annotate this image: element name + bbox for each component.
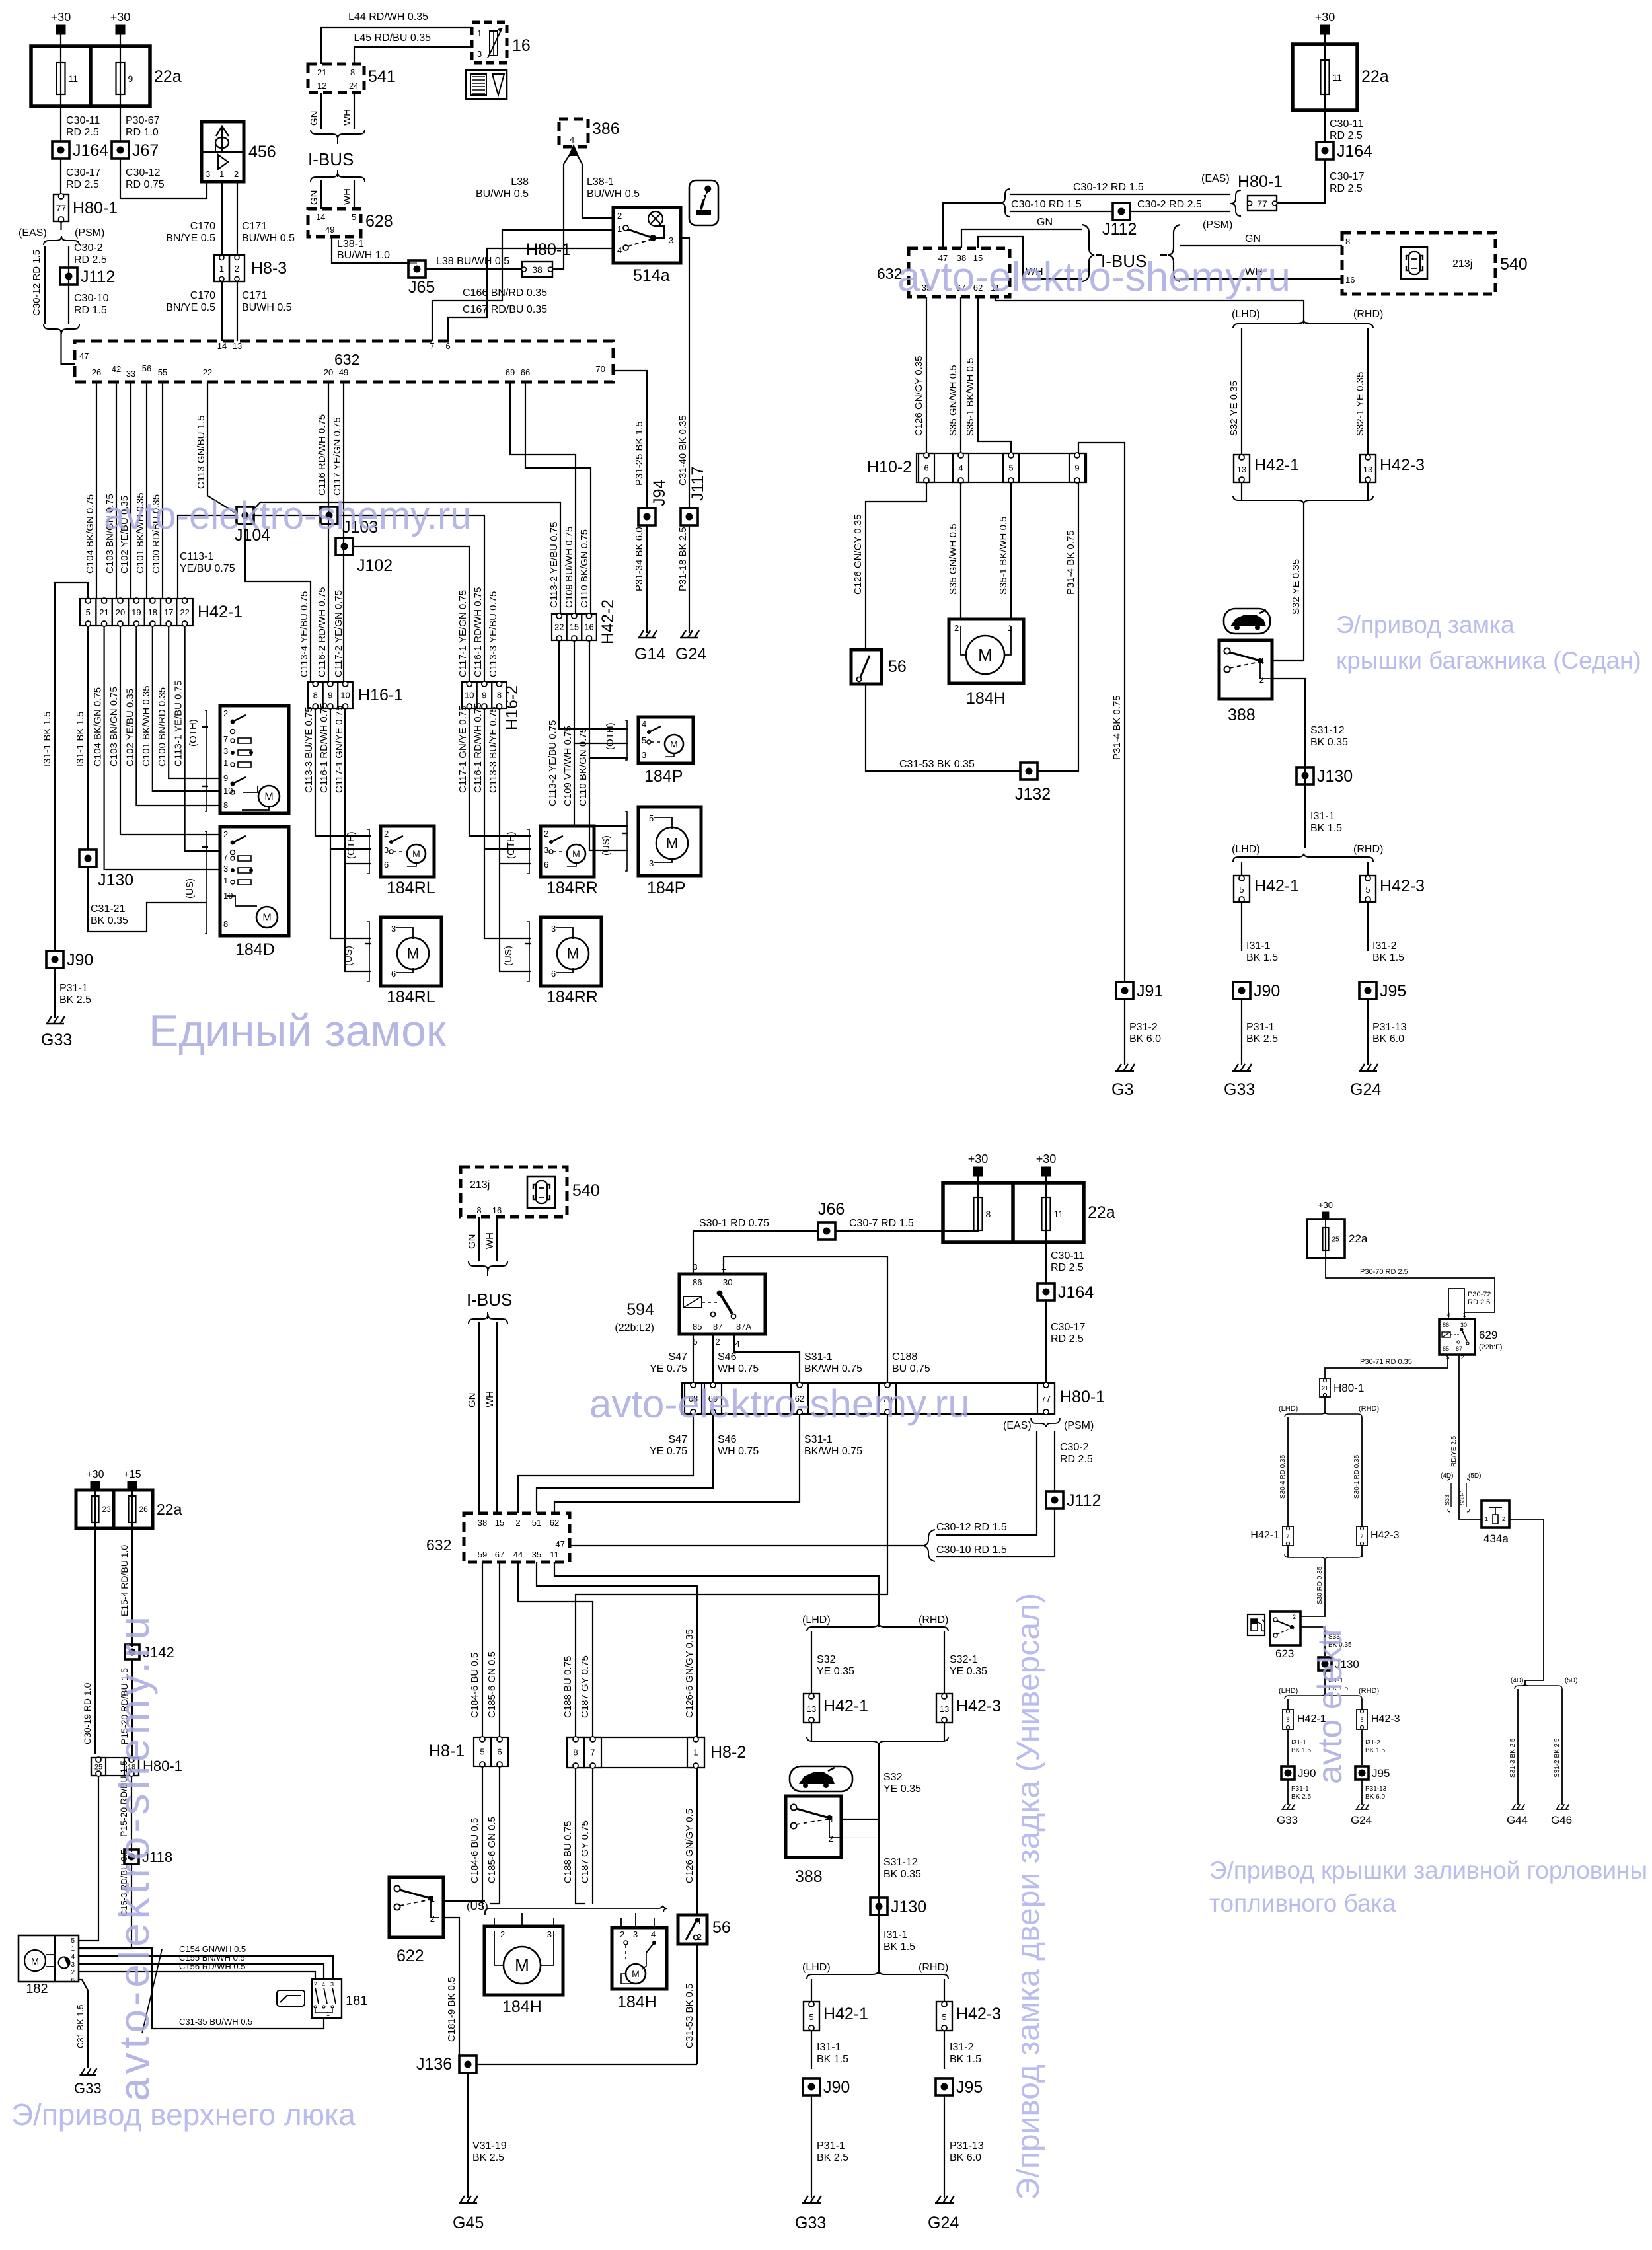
svg-text:C31-40 BK 0.35: C31-40 BK 0.35 [677, 415, 689, 486]
svg-text:(EAS): (EAS) [19, 227, 47, 239]
splice J95 [1359, 982, 1406, 1000]
brace LHD/RHD wagon lower [807, 1971, 948, 1979]
wire S46 WH 0.75 [712, 1334, 714, 1383]
ground G33 fuel [1281, 1804, 1295, 1809]
svg-text:4: 4 [570, 135, 574, 145]
svg-text:C116-1 RD/WH 0.75: C116-1 RD/WH 0.75 [472, 587, 484, 677]
svg-text:(OTH): (OTH) [605, 722, 616, 750]
svg-text:77: 77 [56, 203, 67, 213]
wire P31-1 BK 2.5 [54, 968, 56, 1018]
svg-text:5: 5 [642, 735, 646, 745]
svg-text:594: 594 [626, 1300, 654, 1319]
svg-text:S33: S33 [1444, 1495, 1450, 1505]
svg-text:S35 GN/WH 0.5: S35 GN/WH 0.5 [948, 365, 959, 436]
svg-text:(PSM): (PSM) [75, 227, 104, 239]
wire P30-72 RD 2.5 [1448, 1289, 1464, 1319]
svg-text:H42-1: H42-1 [1254, 877, 1299, 895]
wire C154 GN/WH 0.5 [79, 1956, 333, 1979]
svg-text:86: 86 [693, 1277, 702, 1287]
label (US) with bracket [184, 831, 208, 934]
brace I-BUS top [311, 130, 365, 139]
connector H16-2 (cells 10,9,8) [462, 681, 521, 730]
connector H42-3 pin 13 (wagon) [936, 1694, 1001, 1723]
component 182 (sunroof motor) [19, 1935, 79, 1996]
wire S32 YE 0.35 (LHD) [1241, 328, 1242, 455]
wire C30-10 RD 1.5 [1010, 211, 1113, 212]
svg-text:P31-4 BK 0.75: P31-4 BK 0.75 [1111, 695, 1123, 760]
motor 184H (trunk lock motor, sedan) [949, 619, 1024, 683]
svg-text:49: 49 [339, 367, 348, 377]
svg-text:H16-2: H16-2 [503, 685, 521, 730]
splice J132 [1020, 763, 1037, 780]
svg-text:13: 13 [1237, 465, 1246, 474]
wire I31-1 BK 1.5 (cell 5 to J130) [87, 626, 89, 850]
wire C113-1 YE/BU to H42-1 pin 22 [178, 515, 237, 599]
ECU 540 (bottom, dashed) with lock icon [461, 1167, 600, 1217]
splice J112 right [1113, 203, 1130, 220]
svg-text:44: 44 [513, 1550, 523, 1559]
fuse box 22a (top left) [31, 46, 182, 106]
svg-text:(RHD): (RHD) [919, 1614, 948, 1626]
wire to 184P US pin 5 [574, 743, 628, 826]
svg-text:13: 13 [940, 1704, 949, 1714]
wire I31-2 BK 1.5 RHD [1367, 902, 1369, 951]
switch 623 (fuel flap lock motor/switch) [1270, 1612, 1300, 1645]
wire C30-2 RD 2.5 [1129, 211, 1230, 212]
brace I-BUS bottom [311, 172, 365, 182]
component 184P (US) tailgate lock [638, 807, 701, 876]
wire C30-10 (PSM) [936, 1509, 1055, 1557]
svg-text:BU/WH 1.0: BU/WH 1.0 [337, 250, 390, 261]
svg-text:66: 66 [521, 367, 530, 377]
svg-text:C103 BN/GN 0.75: C103 BN/GN 0.75 [108, 687, 120, 767]
wire C100 [162, 382, 163, 599]
svg-text:184D: 184D [235, 940, 275, 959]
wire into 632 right pin 47 [943, 203, 1000, 248]
svg-text:H42-3: H42-3 [1380, 877, 1425, 895]
svg-text:6: 6 [544, 860, 548, 870]
splice J65 [408, 260, 426, 278]
wire WH from 540 [496, 1217, 498, 1261]
wire P31-34 BK 6.0 [646, 525, 648, 633]
component 16 (dimmer rheostat, dashed) [472, 22, 531, 63]
svg-text:9: 9 [328, 691, 332, 700]
relay 594 (central locking relay) [615, 1262, 765, 1349]
svg-text:H42-1: H42-1 [1254, 456, 1299, 474]
svg-text:(4D): (4D) [1511, 1677, 1523, 1684]
ECU 632 (right, dashed) [877, 248, 1010, 297]
svg-text:(22b:L2): (22b:L2) [615, 1322, 654, 1333]
svg-text:J94: J94 [650, 480, 669, 506]
svg-text:avto-elektro-shemy.ru: avto-elektro-shemy.ru [589, 1382, 970, 1426]
wire P31-13 fuel [1361, 1780, 1363, 1805]
wire L45 RD/BU 0.35 [354, 47, 472, 64]
splice J164 right [1316, 142, 1372, 161]
svg-text:S31-12: S31-12 [883, 1857, 918, 1868]
splice J130 (sedan) [1296, 767, 1353, 786]
svg-text:C104 BK/GN 0.75: C104 BK/GN 0.75 [93, 687, 104, 767]
wire S32 to 388 pin 4 [1272, 504, 1304, 661]
fuse box 22a (fuel) [1307, 1219, 1368, 1258]
connector H42-1 pin 13 [1234, 455, 1299, 482]
connector H80-1 pin 21 (fuel) [1320, 1378, 1364, 1397]
svg-text:9: 9 [128, 73, 133, 84]
svg-text:S46: S46 [718, 1351, 737, 1363]
wire C30-7 RD 1.5 [835, 1210, 978, 1231]
connector H42-2 (cells 22,15,16) [552, 599, 617, 644]
svg-text:S32: S32 [817, 1654, 836, 1665]
splice J103 [320, 507, 338, 524]
wire C184-6 BU 0.5 [482, 1562, 483, 1737]
svg-text:56: 56 [888, 657, 907, 676]
svg-text:16: 16 [584, 622, 593, 632]
svg-text:L38: L38 [511, 176, 529, 188]
wire C166 BN/RD 0.35 [432, 230, 613, 341]
wire L38-1 to 514a pin 2 [582, 217, 613, 219]
svg-text:S31-12: S31-12 [1310, 725, 1345, 736]
brace I-BUS right side [1168, 225, 1180, 281]
svg-text:C30-11: C30-11 [1051, 1250, 1084, 1261]
svg-text:2: 2 [223, 708, 228, 718]
wire C109 VT/WH to 184P pin 5 [574, 640, 628, 743]
svg-text:23: 23 [102, 1505, 112, 1514]
svg-text:16: 16 [492, 1205, 502, 1215]
svg-text:C171: C171 [242, 290, 267, 301]
svg-text:13: 13 [807, 1704, 816, 1714]
wire RD/YE 2.5 [1459, 1355, 1482, 1519]
svg-text:(US): (US) [503, 946, 514, 966]
svg-text:22a: 22a [157, 1501, 182, 1518]
wire C117 YE/GN 0.75 [343, 382, 344, 682]
wire P30-71 RD 0.35 [1325, 1355, 1448, 1378]
wire GN (I-BUS upper) [320, 93, 322, 129]
svg-text:G24: G24 [1351, 1814, 1372, 1826]
svg-text:C113-2 YE/BU 0.75: C113-2 YE/BU 0.75 [547, 720, 558, 806]
wire S31-12 BK 0.35 [1272, 679, 1305, 848]
wire P31-13 wagon [944, 2095, 945, 2198]
svg-text:Единый замок: Единый замок [149, 1006, 447, 1056]
svg-text:C30-17: C30-17 [1051, 1322, 1086, 1333]
diagonal separator [142, 1949, 162, 2033]
svg-text:BK 1.5: BK 1.5 [1372, 952, 1404, 963]
svg-text:J90: J90 [67, 951, 93, 969]
svg-text:8: 8 [223, 800, 228, 810]
svg-text:BK 1.5: BK 1.5 [950, 2054, 981, 2065]
splice J90 right [1233, 982, 1280, 1000]
svg-text:4: 4 [617, 245, 622, 255]
svg-text:184H: 184H [502, 1998, 542, 2016]
wire C116 RD/WH 0.75 [328, 382, 329, 682]
svg-text:G33: G33 [41, 1031, 72, 1049]
splice J90 wagon [803, 2078, 850, 2097]
wire P31-4 up to cell 9 [1037, 482, 1078, 771]
svg-text:S30-1 RD 0.35: S30-1 RD 0.35 [1353, 1454, 1361, 1499]
svg-text:6: 6 [384, 860, 389, 870]
switch 56 (wagon) [678, 1915, 731, 1944]
wire C30-17 right [1277, 159, 1325, 203]
svg-text:RD 1.0: RD 1.0 [126, 127, 159, 138]
wire C113-3 to 184RR [500, 708, 531, 864]
svg-text:C113 GN/BU 1.5: C113 GN/BU 1.5 [196, 416, 207, 489]
svg-text:3: 3 [391, 924, 396, 934]
svg-text:10: 10 [465, 691, 474, 700]
svg-text:M: M [572, 848, 580, 859]
svg-text:J66: J66 [818, 1200, 845, 1219]
svg-text:C188 BU 0.75: C188 BU 0.75 [562, 1656, 574, 1718]
svg-text:RD 2.5: RD 2.5 [1051, 1262, 1084, 1273]
svg-text:C116-1 RD/WH 0.75: C116-1 RD/WH 0.75 [472, 703, 484, 793]
svg-text:+30: +30 [51, 11, 71, 24]
svg-text:C30-10 RD 1.5: C30-10 RD 1.5 [936, 1544, 1007, 1556]
fuse 26 [129, 1496, 149, 1522]
svg-text:M: M [264, 792, 273, 803]
svg-text:+30: +30 [1036, 1152, 1057, 1166]
svg-text:H42-3: H42-3 [1380, 456, 1425, 474]
splice J130 fuel [1318, 1657, 1359, 1670]
svg-text:J136: J136 [416, 2055, 452, 2074]
bracket (OTH) 184RR [506, 829, 529, 874]
svg-text:G33: G33 [1224, 1080, 1255, 1099]
power terminal +30 (fuel) [1318, 1200, 1333, 1219]
splice J142 [125, 1644, 174, 1661]
svg-text:I31-2: I31-2 [1365, 1739, 1380, 1746]
wire 623 pin4 S33 BK 0.35 [1300, 1627, 1325, 1656]
svg-text:YE 0.35: YE 0.35 [883, 1783, 921, 1795]
svg-text:BK 0.35: BK 0.35 [883, 1869, 921, 1880]
splice J67 [112, 141, 159, 160]
wire C30-12 (EAS) [936, 1431, 1037, 1535]
svg-text:M: M [978, 645, 993, 665]
wire V31-19 BK 2.5 [467, 2073, 469, 2198]
svg-text:G33: G33 [74, 2080, 102, 2097]
svg-text:C126 GN/GY 0.35: C126 GN/GY 0.35 [852, 515, 864, 595]
svg-text:11: 11 [1054, 1209, 1064, 1219]
svg-text:C109 BU/WH 0.75: C109 BU/WH 0.75 [564, 527, 575, 608]
svg-text:2: 2 [544, 829, 548, 839]
svg-text:L45 RD/BU 0.35: L45 RD/BU 0.35 [354, 32, 431, 44]
wire to 184RR US pin 3 [484, 849, 531, 938]
switch 622 (wagon) [389, 1877, 443, 1937]
svg-text:avto-elektro-shemy.ru: avto-elektro-shemy.ru [104, 494, 472, 537]
svg-text:C170: C170 [190, 221, 215, 232]
svg-text:3: 3 [633, 1930, 638, 1939]
svg-text:(RHD): (RHD) [1359, 1405, 1379, 1413]
svg-text:20: 20 [324, 367, 333, 377]
svg-text:632: 632 [334, 351, 359, 368]
svg-text:5: 5 [480, 1747, 484, 1757]
svg-text:184P: 184P [647, 879, 685, 897]
wire C100 to 184D OTH pin 9 [169, 626, 219, 778]
svg-text:G14: G14 [634, 645, 665, 663]
svg-text:C30-2: C30-2 [1060, 1442, 1089, 1453]
svg-text:15: 15 [495, 1518, 504, 1528]
svg-text:C126 GN/GY 0.35: C126 GN/GY 0.35 [913, 356, 924, 436]
svg-text:22: 22 [203, 367, 212, 377]
connector H42-1 pin 5 (fuel) [1283, 1709, 1326, 1729]
svg-text:38: 38 [532, 264, 543, 275]
svg-text:C184-6 BU 0.5: C184-6 BU 0.5 [469, 1818, 480, 1883]
wire C103 [116, 382, 117, 599]
svg-text:P31-1: P31-1 [1291, 1785, 1309, 1793]
svg-text:C101 BK/WH 0.35: C101 BK/WH 0.35 [141, 685, 152, 767]
wire P31-2 BK 6.0 [1124, 999, 1125, 1065]
wire C187 GY 0.75 [518, 1562, 593, 1737]
svg-text:C117-2 YE/GN 0.75: C117-2 YE/GN 0.75 [333, 590, 344, 677]
svg-text:J132: J132 [1015, 785, 1051, 804]
svg-text:C30-12: C30-12 [126, 167, 161, 178]
wire P15-20 RD/BU 1.5 [131, 1659, 133, 1758]
svg-text:P31-13: P31-13 [1365, 1785, 1387, 1793]
connector H42-1 pin 13 (wagon) [804, 1694, 868, 1723]
svg-text:+30: +30 [1315, 11, 1335, 24]
bracket below 7-connectors [1285, 1554, 1362, 1559]
brace LHD/RHD lower [1233, 854, 1373, 862]
wire +30 to fuse 11 right [1324, 30, 1326, 60]
wire S31-2 BK 2.5 [1561, 1689, 1563, 1805]
wire P31-25 BK 1.5 [613, 371, 647, 508]
brace LHD/RHD fuel top [1285, 1412, 1362, 1417]
svg-text:184RL: 184RL [387, 988, 435, 1006]
svg-text:1: 1 [223, 758, 228, 768]
svg-text:C113-1: C113-1 [180, 551, 213, 562]
wire C156 RD/WH 0.5 [79, 1972, 315, 1979]
svg-text:1: 1 [617, 224, 622, 234]
svg-text:C117-1 GN/YE 0.75: C117-1 GN/YE 0.75 [457, 706, 469, 793]
svg-text:3: 3 [551, 924, 556, 934]
svg-text:2: 2 [235, 264, 239, 274]
svg-text:26: 26 [139, 1505, 149, 1514]
fuse box 22a (top right) [1293, 44, 1389, 110]
svg-text:21: 21 [317, 67, 326, 77]
wire C103 to 184D US pin 2 [120, 626, 219, 835]
svg-text:G33: G33 [795, 2214, 826, 2232]
svg-text:(LHD): (LHD) [1232, 844, 1260, 855]
svg-text:BK 6.0: BK 6.0 [1365, 1793, 1385, 1801]
connector H80-1 (sunroof pins 25/18) [91, 1757, 182, 1776]
wire H80-1 stub [60, 221, 61, 230]
svg-text:H80-1: H80-1 [1238, 172, 1283, 191]
svg-text:622: 622 [396, 1947, 424, 1965]
svg-text:C110 BK/GN 0.75: C110 BK/GN 0.75 [578, 728, 589, 806]
svg-text:4: 4 [735, 1339, 739, 1349]
connector H42-3 pin 7 [1357, 1526, 1400, 1546]
svg-text:C116 RD/WH 0.75: C116 RD/WH 0.75 [317, 414, 328, 496]
svg-text:RD 2.5: RD 2.5 [1330, 130, 1363, 141]
svg-text:GN: GN [467, 1234, 478, 1250]
connector H42-3 pin 5 [1360, 876, 1425, 902]
svg-text:2: 2 [223, 829, 228, 839]
wire C181-9 BK 0.5 [443, 1918, 459, 2055]
wire below H42-3 13 [1367, 482, 1369, 500]
svg-text:C166 BN/RD 0.35: C166 BN/RD 0.35 [463, 287, 547, 299]
wire C188 BU 0.75 from relay 30 [724, 1257, 887, 1383]
brace I-BUS top (section3) [469, 1261, 507, 1271]
svg-text:2: 2 [954, 623, 959, 633]
svg-text:2: 2 [234, 169, 239, 179]
wire P31-18 BK 2.5 [689, 525, 690, 633]
svg-text:G44: G44 [1507, 1814, 1528, 1826]
svg-text:C30-11: C30-11 [1330, 118, 1363, 130]
tailgate icon (wagon) [790, 1766, 852, 1791]
wire segment J104 to J103 [253, 515, 320, 516]
wire C117-1 GN/YE to H16-2 [352, 546, 469, 682]
svg-text:5: 5 [1239, 885, 1244, 895]
wire L38-1 up to 386 [582, 164, 583, 218]
motor 184H right (with switch) [612, 1913, 667, 1989]
svg-text:3: 3 [547, 1930, 552, 1939]
svg-text:C185-6 GN 0.5: C185-6 GN 0.5 [486, 1651, 498, 1718]
svg-text:70: 70 [596, 364, 605, 374]
wire C155 BN/WH 0.5 [79, 1964, 324, 1979]
svg-text:184P: 184P [644, 767, 683, 786]
switch 388 (wagon) [786, 1796, 841, 1857]
svg-text:C117-1 YE/GN 0.75: C117-1 YE/GN 0.75 [457, 590, 469, 677]
fuse 8 [974, 1197, 991, 1230]
wire C116-1 RD/WH to H16-2 [337, 515, 484, 682]
svg-text:3: 3 [477, 49, 482, 59]
wire C101 [146, 382, 147, 599]
connector H80-1 pin 38 [522, 241, 572, 277]
svg-text:J130: J130 [98, 871, 133, 889]
svg-text:8: 8 [223, 919, 228, 929]
wire I31-1 fuel [1324, 1670, 1326, 1696]
svg-text:C170: C170 [190, 290, 215, 301]
svg-text:BK 1.5: BK 1.5 [1291, 1747, 1311, 1754]
svg-text:24: 24 [349, 81, 358, 91]
svg-text:M: M [515, 1955, 529, 1975]
svg-text:(PSM): (PSM) [1203, 219, 1232, 231]
svg-text:7: 7 [223, 734, 228, 744]
svg-text:16: 16 [512, 36, 531, 55]
svg-text:C30-17: C30-17 [1330, 171, 1365, 182]
svg-text:22: 22 [554, 622, 564, 632]
svg-text:8: 8 [1345, 237, 1350, 246]
svg-text:14: 14 [316, 212, 325, 222]
svg-text:632: 632 [426, 1536, 451, 1554]
svg-text:(US): (US) [601, 835, 612, 856]
heater control icon box [466, 70, 507, 99]
svg-text:P31-1: P31-1 [817, 2140, 845, 2152]
power terminal +30 middle-right [1036, 1152, 1057, 1176]
wire S30-4 RD 0.35 [1287, 1417, 1289, 1526]
svg-text:I31-1: I31-1 [1310, 811, 1335, 822]
wire I31-1 LHD fuel [1287, 1729, 1289, 1765]
svg-text:+30: +30 [110, 11, 131, 24]
wire C110 BK/GN 0.75 [525, 382, 591, 614]
svg-text:BN/YE 0.5: BN/YE 0.5 [166, 233, 215, 244]
svg-text:388: 388 [1228, 706, 1256, 724]
wire S30-1 down to relay [693, 1231, 694, 1274]
svg-text:628: 628 [365, 212, 393, 231]
wire 622 pin 1 to US bracket [443, 1900, 485, 1902]
svg-text:C113-3 BU/YE 0.75: C113-3 BU/YE 0.75 [303, 706, 315, 793]
svg-text:15: 15 [570, 622, 579, 632]
ground G24 right [1359, 1064, 1378, 1071]
svg-text:(5D): (5D) [1468, 1472, 1481, 1480]
svg-text:+30: +30 [86, 1469, 104, 1480]
wire C110 to 184P pin 3 [589, 640, 628, 758]
splice J136 [459, 2056, 476, 2073]
wire C31-40/P31-18 BK from 514a pin 3 [681, 238, 689, 508]
svg-text:J91: J91 [1137, 982, 1163, 1000]
svg-text:C188 BU 0.75: C188 BU 0.75 [562, 1821, 574, 1883]
svg-text:H42-3: H42-3 [1371, 1713, 1400, 1725]
svg-text:6: 6 [551, 969, 556, 979]
wire from 434a pin2 [1509, 1519, 1544, 1686]
svg-text:C117-1 GN/YE 0.75: C117-1 GN/YE 0.75 [334, 706, 345, 793]
svg-text:1: 1 [219, 169, 224, 179]
wire C113-4 YE/BU to H16-1 [245, 523, 311, 682]
